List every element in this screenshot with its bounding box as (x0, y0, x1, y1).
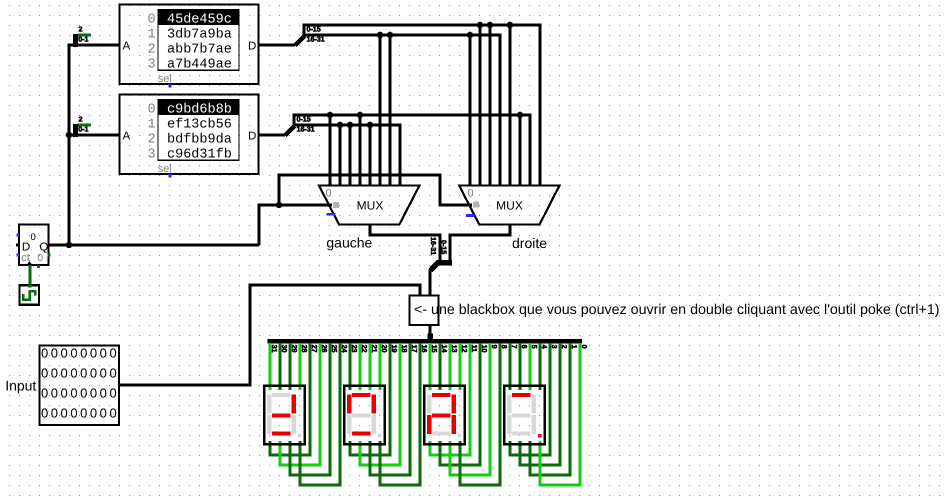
svg-text:0-15: 0-15 (297, 115, 311, 124)
leg bit13 (449, 343, 452, 390)
svg-text:0: 0 (148, 12, 156, 27)
svg-text:sel: sel (158, 163, 172, 175)
svg-text:31: 31 (270, 345, 279, 353)
junction at (350,125) (347, 122, 354, 129)
leg bit27 to display1 pin (270, 343, 310, 455)
svg-text:00000000: 00000000 (41, 386, 119, 401)
svg-text:16-31: 16-31 (429, 237, 438, 255)
leg bit31 (269, 343, 272, 390)
wire bus ROM1 bits 0-15 (304, 25, 540, 185)
svg-text:c96d31fb: c96d31fb (167, 147, 232, 162)
svg-text:16: 16 (420, 345, 429, 353)
svg-text:2: 2 (148, 42, 156, 57)
wire to right MUX select (279, 175, 472, 205)
svg-text:1: 1 (148, 27, 156, 42)
7-segment display D4 (504, 386, 545, 445)
leg bit5 (529, 343, 532, 390)
wire to left MUX select (259, 205, 332, 245)
svg-text:8: 8 (500, 345, 509, 349)
svg-text:2: 2 (148, 132, 156, 147)
leg bit16 to display2 pin (380, 343, 420, 485)
leg bit14 (439, 343, 442, 390)
svg-text:18: 18 (400, 345, 409, 353)
svg-text:00000000: 00000000 (41, 366, 119, 381)
wire left MUX output (370, 225, 440, 260)
junction at (470,35) (467, 32, 474, 39)
svg-text:A: A (123, 131, 131, 143)
7-segment display D1 (264, 386, 305, 445)
leg bit29 (289, 343, 292, 390)
bit legs group (270, 343, 580, 485)
svg-text:27: 27 (310, 345, 319, 353)
MUX U3 gauche (319, 186, 419, 225)
svg-text:0: 0 (467, 187, 473, 199)
leg bit11 to display3 pin (430, 343, 470, 455)
leg bit12 (459, 343, 462, 390)
svg-text:1: 1 (148, 117, 156, 132)
leg bit24 to display1 pin (300, 343, 340, 485)
junction node at ROM2 A (66, 132, 73, 139)
svg-text:30: 30 (280, 345, 289, 353)
svg-text:26: 26 (320, 345, 329, 353)
leg bit21 (369, 343, 372, 390)
svg-text:25: 25 (330, 345, 339, 353)
svg-text:00000000: 00000000 (41, 346, 119, 361)
leg bit7 (509, 343, 512, 390)
svg-text:a7b449ae: a7b449ae (167, 57, 232, 72)
svg-text:droite: droite (512, 235, 547, 251)
wire ROM2 D output (259, 134, 285, 137)
svg-text:0: 0 (325, 187, 331, 199)
svg-text:MUX: MUX (357, 199, 384, 213)
7-segment display D3 (424, 386, 465, 445)
svg-text:3db7a9ba: 3db7a9ba (167, 27, 232, 42)
svg-text:45de459c: 45de459c (167, 12, 232, 27)
svg-text:19: 19 (390, 345, 399, 353)
wire input pin to blackbox (119, 285, 420, 385)
svg-text:5: 5 (530, 345, 539, 349)
svg-text:ct: ct (21, 252, 30, 264)
svg-text:0-1: 0-1 (78, 34, 88, 43)
wire ROM2 A input (69, 134, 119, 137)
leg bit23 (349, 343, 352, 390)
svg-text:28: 28 (300, 345, 309, 353)
junction at (340,125) (337, 122, 344, 129)
D flip-flop U5 (16, 225, 51, 268)
leg bit2 to display4 pin (520, 343, 560, 465)
wire blackbox output (429, 325, 432, 335)
svg-text:17: 17 (410, 345, 419, 353)
clock CLK1 (20, 285, 40, 305)
ROM U2 (120, 95, 259, 178)
svg-text:3: 3 (550, 345, 559, 349)
7-segment display D2 (344, 386, 385, 445)
leg bit19 to display2 pin (350, 343, 390, 455)
svg-text:abb7b7ae: abb7b7ae (167, 42, 232, 57)
junction node at flip-flop Q (66, 242, 73, 249)
svg-text:0-15: 0-15 (440, 240, 449, 254)
splitter S6 32-bit fanout (427, 334, 433, 340)
svg-text:3: 3 (148, 57, 156, 72)
wire right MUX output (450, 225, 510, 260)
svg-text:MUX: MUX (496, 199, 523, 213)
junction at (520,115) (517, 112, 524, 119)
splitter S3 at ROM1 D (295, 36, 305, 46)
svg-text:0: 0 (148, 102, 156, 117)
splitter S4 at ROM2 D (285, 126, 295, 136)
leg bit10 to display3 pin (440, 343, 480, 465)
svg-text:2: 2 (560, 345, 569, 349)
svg-text:Input: Input (5, 378, 36, 394)
bit number labels (270, 345, 589, 353)
svg-text:0-1: 0-1 (78, 124, 88, 133)
leg bit0 to display4 pin (540, 343, 580, 485)
svg-text:29: 29 (290, 345, 299, 353)
leg bit20 (379, 343, 382, 390)
splitter S1 at ROM1 A with 2-bit leg (73, 24, 91, 47)
junction at (360,115) (357, 112, 364, 119)
leg bit3 to display4 pin (510, 343, 550, 455)
leg bit8 to display3 pin (460, 343, 500, 485)
wires right MUX data inputs (469, 35, 472, 185)
ROM U1 (120, 5, 259, 88)
svg-text:4: 4 (540, 345, 549, 349)
svg-text:sel: sel (158, 73, 172, 85)
leg bit17 to display2 pin (370, 343, 410, 475)
svg-text:16-31: 16-31 (307, 34, 325, 43)
svg-text:24: 24 (340, 345, 349, 353)
svg-text:1: 1 (570, 345, 579, 349)
junction node at MUX select branch (276, 202, 283, 209)
svg-text:A: A (123, 41, 131, 53)
svg-text:15: 15 (430, 345, 439, 353)
junction at (370,125) (367, 122, 374, 129)
MUX U4 droite (459, 186, 559, 225)
wire clock to flip-flop (29, 265, 32, 285)
svg-text:gauche: gauche (326, 235, 372, 251)
svg-text:23: 23 (350, 345, 359, 353)
junction at (480,25) (477, 22, 484, 29)
svg-text:7: 7 (510, 345, 519, 349)
splitter S5 recombining MUX outputs (431, 263, 453, 271)
svg-text:12: 12 (460, 345, 469, 353)
junction at (390,35) (387, 32, 394, 39)
leg bit25 to display1 pin (290, 343, 330, 475)
leg bit15 (429, 343, 432, 390)
svg-text:<- une blackbox que vous pouve: <- une blackbox que vous pouvez ouvrir e… (414, 302, 940, 318)
svg-text:00000000: 00000000 (41, 406, 119, 421)
wire bus ROM2 bits 0-15 (294, 115, 530, 185)
wires left MUX data inputs (329, 115, 332, 185)
leg bit22 (359, 343, 362, 390)
junction at (490,25) (487, 22, 494, 29)
svg-text:ef13cb56: ef13cb56 (167, 117, 232, 132)
svg-text:c9bd6b8b: c9bd6b8b (167, 102, 232, 117)
svg-text:14: 14 (440, 345, 449, 353)
svg-text:2: 2 (79, 114, 83, 123)
svg-text:22: 22 (360, 345, 369, 353)
leg bit30 (279, 343, 282, 390)
svg-text:3: 3 (148, 147, 156, 162)
svg-text:D: D (248, 131, 256, 143)
blackbox U6 (410, 296, 439, 326)
svg-text:10: 10 (480, 345, 489, 353)
splitter S2 at ROM2 A with 2-bit leg (73, 114, 91, 137)
wire flip-flop Q output (49, 244, 259, 247)
leg bit18 to display2 pin (360, 343, 400, 465)
svg-text:0-15: 0-15 (307, 25, 321, 34)
leg bit28 (299, 343, 302, 390)
svg-text:9: 9 (490, 345, 499, 349)
wire splitter S5 to blackbox (429, 269, 432, 295)
wire bus ROM1 bits 16-31 (304, 35, 500, 185)
wire trunk from ROM A inputs down left side (69, 45, 119, 245)
wire bus ROM2 bits 16-31 (294, 125, 400, 185)
svg-text:D: D (248, 41, 256, 53)
leg bit9 to display3 pin (450, 343, 490, 475)
svg-text:20: 20 (380, 345, 389, 353)
leg bit26 to display1 pin (280, 343, 320, 465)
svg-text:13: 13 (450, 345, 459, 353)
svg-text:6: 6 (520, 345, 529, 349)
leg bit4 (539, 343, 542, 390)
svg-text:2: 2 (79, 24, 83, 33)
svg-text:0: 0 (37, 252, 43, 264)
leg bit1 to display4 pin (530, 343, 570, 475)
junction at (510,25) (507, 22, 514, 29)
svg-text:0: 0 (580, 345, 589, 349)
junction at (330,115) (327, 112, 334, 119)
junction at (380,35) (377, 32, 384, 39)
svg-text:bdfbb9da: bdfbb9da (167, 132, 232, 147)
svg-text:16-31: 16-31 (297, 125, 315, 134)
input pin Input (40, 346, 120, 426)
svg-text:11: 11 (470, 345, 479, 353)
svg-text:0: 0 (30, 232, 35, 243)
leg bit6 (519, 343, 522, 390)
svg-text:21: 21 (370, 345, 379, 353)
wire ROM1 D output (259, 44, 295, 47)
